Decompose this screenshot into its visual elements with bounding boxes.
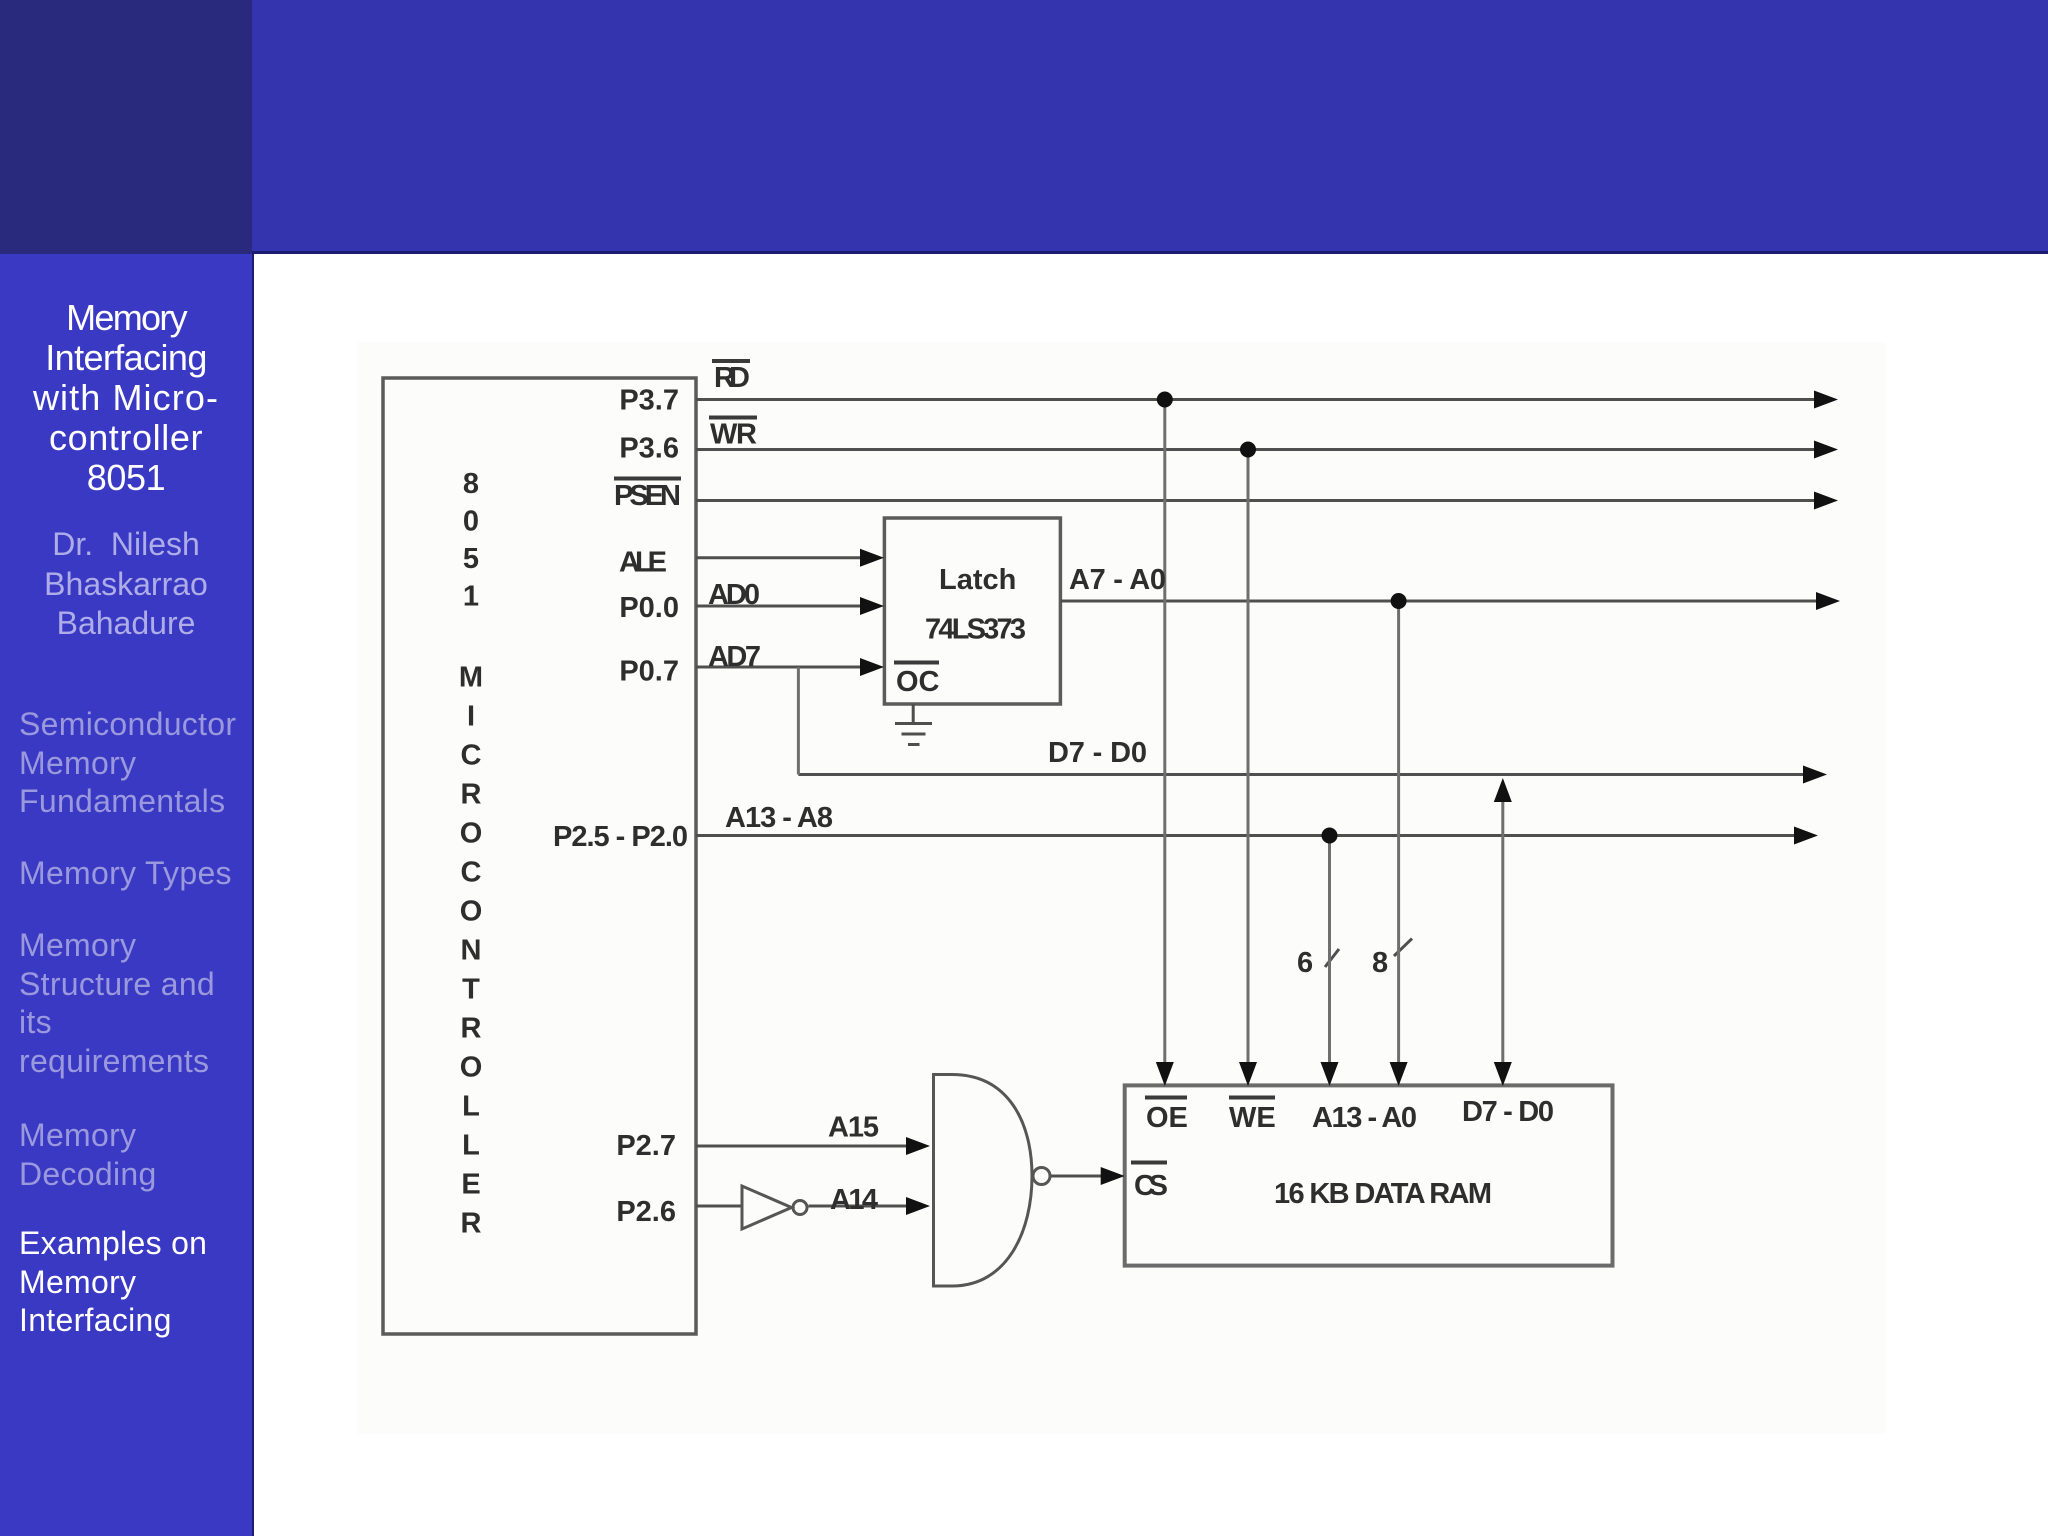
svg-text:CS: CS: [1134, 1170, 1168, 1202]
svg-text:WE: WE: [1229, 1102, 1276, 1134]
svg-text:P2.5 - P2.0: P2.5 - P2.0: [553, 821, 688, 853]
svg-text:P3.7: P3.7: [619, 385, 679, 417]
svg-text:A13 - A8: A13 - A8: [725, 802, 833, 834]
svg-text:OC: OC: [896, 666, 940, 698]
svg-text:5: 5: [463, 543, 479, 575]
svg-text:WR: WR: [710, 419, 757, 451]
svg-text:8: 8: [463, 468, 479, 500]
svg-text:D7 - D0: D7 - D0: [1462, 1096, 1554, 1128]
svg-text:A7 - A0: A7 - A0: [1069, 564, 1166, 596]
svg-text:A13 - A0: A13 - A0: [1312, 1102, 1417, 1134]
svg-text:P2.6: P2.6: [616, 1196, 676, 1228]
svg-text:R: R: [461, 1013, 482, 1045]
svg-text:R: R: [461, 1208, 482, 1240]
svg-text:O: O: [460, 818, 483, 850]
svg-text:R: R: [461, 779, 482, 811]
svg-text:C: C: [461, 740, 482, 772]
svg-text:T: T: [462, 974, 480, 1006]
svg-text:P2.7: P2.7: [616, 1130, 676, 1162]
svg-text:PSEN: PSEN: [614, 480, 681, 512]
svg-text:A14: A14: [830, 1184, 878, 1216]
svg-text:N: N: [461, 935, 482, 967]
svg-text:D7 - D0: D7 - D0: [1048, 737, 1147, 769]
svg-text:L: L: [462, 1091, 480, 1123]
svg-text:C: C: [461, 857, 482, 889]
svg-text:6: 6: [1297, 947, 1313, 979]
svg-text:8: 8: [1372, 947, 1388, 979]
svg-text:16 KB DATA RAM: 16 KB DATA RAM: [1274, 1178, 1492, 1210]
svg-text:1: 1: [463, 581, 479, 613]
svg-text:OE: OE: [1146, 1102, 1188, 1134]
svg-text:P0.7: P0.7: [619, 656, 679, 688]
svg-text:E: E: [461, 1169, 480, 1201]
svg-text:M: M: [459, 662, 483, 694]
svg-text:O: O: [460, 896, 483, 928]
svg-text:74LS373: 74LS373: [925, 614, 1026, 646]
svg-text:L: L: [462, 1130, 480, 1162]
svg-text:I: I: [467, 701, 475, 733]
svg-text:RD: RD: [714, 362, 750, 394]
svg-text:0: 0: [463, 506, 479, 538]
svg-text:O: O: [460, 1052, 483, 1084]
svg-text:Latch: Latch: [939, 564, 1016, 596]
svg-text:P3.6: P3.6: [619, 433, 679, 465]
svg-text:A15: A15: [828, 1112, 879, 1144]
svg-text:P0.0: P0.0: [619, 592, 679, 624]
svg-text:ALE: ALE: [619, 547, 667, 579]
svg-text:AD0: AD0: [708, 579, 760, 611]
svg-text:AD7: AD7: [708, 641, 761, 673]
